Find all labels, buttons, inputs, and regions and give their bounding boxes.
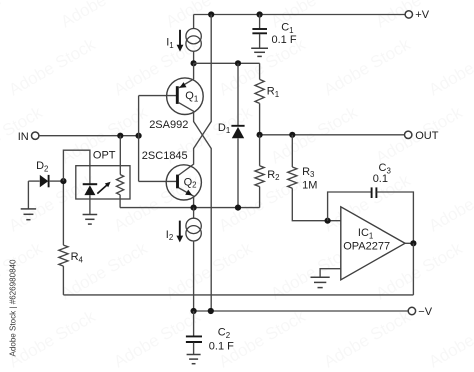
diode D2 — [28, 175, 63, 187]
arrow I2 direction — [176, 221, 183, 243]
svg-text:OPT: OPT — [93, 150, 116, 162]
LED light arrow — [97, 182, 110, 194]
svg-text:OPA2277: OPA2277 — [343, 240, 390, 252]
resistor R1 — [255, 63, 264, 135]
current source I2 — [186, 208, 201, 311]
wire D2 anode to ground — [27, 181, 29, 209]
ground below D2 — [21, 209, 36, 220]
wire feedback return line to R4 — [63, 294, 413, 296]
junction D2 / R4 / LED branch — [60, 178, 66, 184]
wire IN line — [39, 135, 139, 137]
capacitor C2 — [186, 311, 202, 354]
wire +V supply rail — [194, 14, 406, 16]
junction top rail to Q2 collector line — [208, 11, 214, 17]
svg-text:−V: −V — [418, 306, 432, 318]
junction I1 / Q1 emitter / rail to R1 — [191, 60, 197, 66]
terminal OUT — [405, 130, 439, 142]
svg-text:0.1 F: 0.1 F — [209, 341, 234, 353]
wire Q2 collector to +V rail (crossover) — [179, 15, 211, 176]
transistor Q1 (2SA992 PNP) — [167, 63, 204, 114]
terminal +V — [405, 9, 430, 21]
junction Q2 emitter / I2 — [191, 205, 197, 211]
wire I1 node to R1 top — [194, 62, 260, 64]
wire output node line (photoresistor to R2) — [120, 207, 260, 209]
ground below C2 — [187, 355, 201, 364]
terminal -V — [408, 306, 433, 318]
junction op-amp output node — [410, 240, 416, 246]
junction top rail to C1 — [257, 11, 263, 17]
wire op-amp output — [405, 242, 413, 244]
LED inside OPT — [83, 184, 98, 214]
svg-text:OUT: OUT — [415, 130, 439, 142]
junction D1 anode / output line — [235, 205, 241, 211]
junction D1 cathode branch — [235, 60, 241, 66]
current source I1 — [186, 15, 201, 64]
svg-text:IN: IN — [18, 131, 29, 143]
ground at op-amp + input — [311, 277, 330, 287]
svg-text:Adobe Stock | #626980840: Adobe Stock | #626980840 — [8, 259, 17, 356]
capacitor C1 — [252, 15, 267, 48]
wire D2 node to OPT LED cathode — [63, 150, 90, 184]
diode D1 — [231, 63, 244, 207]
junction IN line / base bus — [136, 133, 142, 139]
photoresistor inside OPT — [117, 136, 124, 208]
wire OUT line — [260, 134, 405, 136]
ground below LED — [83, 215, 98, 225]
terminal IN — [18, 131, 39, 143]
capacitor C3 — [372, 187, 377, 198]
op-amp IC1 OPA2277 — [341, 207, 405, 280]
junction R3 / OUT — [289, 132, 295, 138]
wire op-amp noninverting input to ground — [320, 269, 341, 277]
junction I2 / -V rail / C2 — [191, 308, 197, 314]
svg-text:1M: 1M — [302, 179, 317, 191]
wire -V supply rail — [194, 310, 409, 312]
junction feedback node (inverting input) — [325, 218, 331, 224]
resistor R4 — [59, 181, 68, 295]
junction IN line / photoresistor branch — [117, 133, 123, 139]
junction R1 / R2 / OUT — [257, 132, 263, 138]
resistor R2 — [255, 135, 264, 208]
svg-text:2SA992: 2SA992 — [149, 119, 188, 131]
wire Q1 collector to -V rail (crossover) — [179, 103, 211, 311]
svg-text:0.1: 0.1 — [373, 173, 388, 185]
wire feedback node to C3 — [328, 192, 372, 221]
arrow I1 direction — [177, 30, 184, 52]
svg-text:2SC1845: 2SC1845 — [142, 150, 188, 162]
wire output node down to feedback return — [412, 243, 414, 295]
resistor R3 — [288, 135, 341, 221]
svg-text:0.1 F: 0.1 F — [272, 34, 297, 46]
wire C3 to op-amp output node — [377, 192, 414, 243]
svg-text:+V: +V — [415, 9, 429, 21]
optocoupler OPT enclosure — [76, 166, 130, 199]
ground below C1 — [251, 48, 268, 56]
wire base bus to Q1 and Q2 bases — [139, 96, 177, 182]
junction Q1 collector / -V rail — [208, 308, 214, 314]
transistor Q2 (2SC1845 NPN) — [166, 165, 201, 208]
